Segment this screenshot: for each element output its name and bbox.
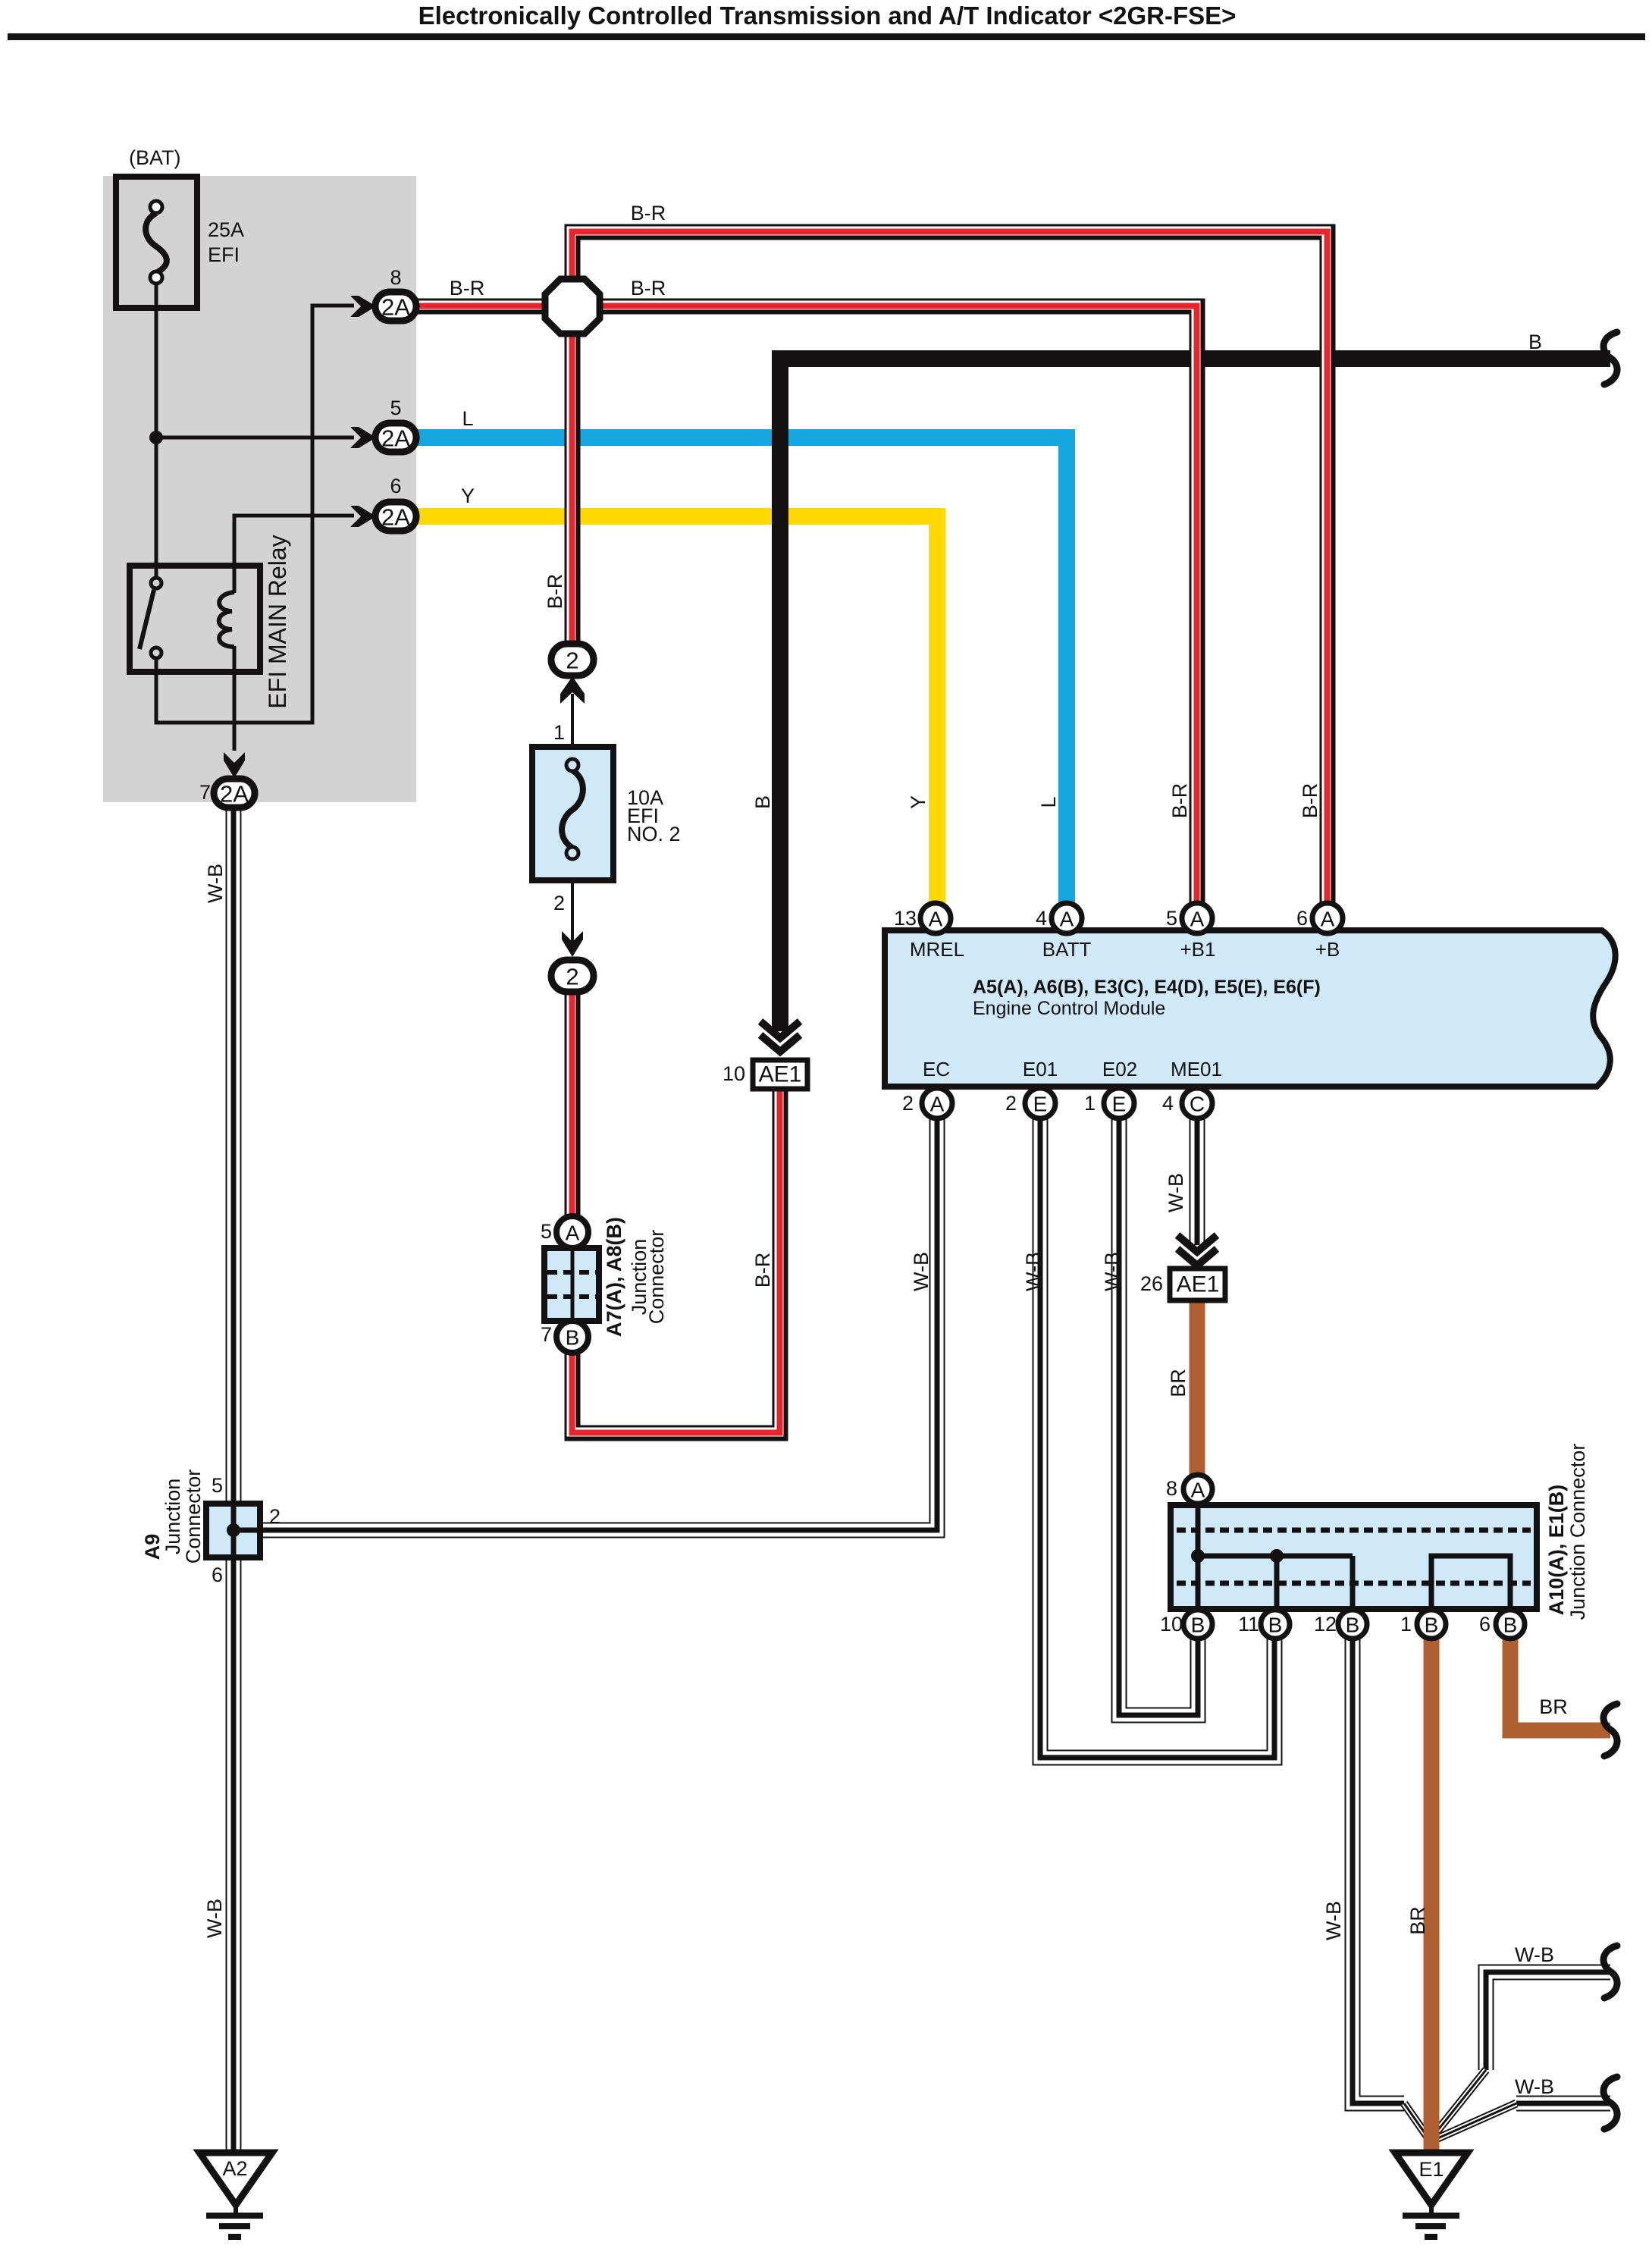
svg-text:B-R: B-R xyxy=(631,202,666,224)
svg-text:5: 5 xyxy=(541,1220,552,1243)
svg-text:B: B xyxy=(566,1326,580,1350)
fuse 25A element xyxy=(146,213,167,273)
svg-text:BR: BR xyxy=(1406,1906,1429,1935)
wire W-B E01 to pin 11 xyxy=(1040,1116,1274,1758)
ECM pin 5 +B1 circle A xyxy=(1182,903,1212,933)
connector oval 2 upper xyxy=(551,644,594,676)
connector oval 2A pin 6 xyxy=(375,502,416,531)
ground E1 triangle xyxy=(1395,2153,1468,2205)
ECM pin 13 MREL circle A xyxy=(920,903,951,933)
junction connector A7 A8 circle A pin 5 xyxy=(556,1216,588,1248)
ground A2 triangle xyxy=(199,2153,272,2205)
svg-text:7: 7 xyxy=(199,781,211,804)
svg-text:B: B xyxy=(1528,331,1542,353)
svg-text:B: B xyxy=(751,795,774,809)
svg-text:2: 2 xyxy=(902,1092,914,1115)
svg-text:2: 2 xyxy=(553,892,565,914)
svg-text:2A: 2A xyxy=(381,425,410,452)
svg-text:6: 6 xyxy=(212,1564,223,1586)
svg-text:W-B: W-B xyxy=(1515,1943,1554,1966)
svg-text:W-B: W-B xyxy=(204,864,227,903)
svg-text:5: 5 xyxy=(390,397,401,419)
wire B-R row8 to +B1 xyxy=(416,306,1197,907)
svg-text:W-B: W-B xyxy=(910,1252,933,1291)
svg-text:W-B: W-B xyxy=(1165,1173,1187,1212)
A10 pin 1 circle B xyxy=(1417,1610,1446,1639)
svg-text:E: E xyxy=(1112,1093,1127,1116)
junction connector A9 box xyxy=(206,1504,260,1557)
svg-text:Connector: Connector xyxy=(645,1230,668,1325)
svg-text:E01: E01 xyxy=(1023,1058,1058,1081)
svg-text:W-B: W-B xyxy=(1322,1901,1345,1940)
svg-text:4: 4 xyxy=(1036,907,1047,930)
A10 pin 12 circle B xyxy=(1338,1610,1367,1639)
svg-text:1: 1 xyxy=(1084,1092,1096,1115)
svg-text:AE1: AE1 xyxy=(759,1062,802,1087)
svg-text:B-R: B-R xyxy=(450,277,485,300)
wire fuse 25A to relay switch xyxy=(155,283,158,580)
svg-text:A5(A), A6(B), E3(C), E4(D), E5: A5(A), A6(B), E3(C), E4(D), E5(E), E6(F) xyxy=(973,977,1321,998)
arrow down into oval 2b xyxy=(562,931,583,957)
wire relay switch out to arrow 8 xyxy=(156,306,354,723)
svg-text:ME01: ME01 xyxy=(1171,1058,1222,1081)
wire W-B pin 12 to ground E1 xyxy=(1353,1638,1404,2103)
svg-text:10: 10 xyxy=(1160,1613,1183,1636)
connector oval 2A pin 7 xyxy=(214,779,255,808)
wire relay coil to arrow 7 xyxy=(233,646,237,751)
svg-text:B: B xyxy=(1191,1614,1205,1637)
svg-text:B-R: B-R xyxy=(1299,783,1321,819)
wire B-R octagon top loop to +B xyxy=(572,232,1328,907)
chevron arrows into AE1 10 xyxy=(760,1021,800,1038)
svg-text:Y: Y xyxy=(461,485,475,507)
svg-text:A: A xyxy=(1191,1479,1205,1502)
svg-text:5: 5 xyxy=(1166,907,1177,930)
svg-text:AE1: AE1 xyxy=(1177,1272,1220,1297)
wire W-B tall left to ground A2 xyxy=(226,805,242,2155)
svg-text:EC: EC xyxy=(923,1058,950,1081)
ECM pin 2 E01 circle E xyxy=(1025,1088,1055,1118)
wire B-R loop AE1 to junction connector xyxy=(572,991,780,1433)
chevron arrows into AE1 26 xyxy=(1177,1235,1217,1252)
connector oval 2A pin 5 xyxy=(375,423,416,452)
junction connector A10 E1 box xyxy=(1171,1505,1537,1609)
svg-text:A: A xyxy=(1060,908,1074,931)
wire L blue BATT feed xyxy=(416,438,1067,907)
arrow up into oval 2 xyxy=(560,676,585,704)
svg-text:7: 7 xyxy=(541,1323,552,1346)
svg-text:C: C xyxy=(1190,1093,1205,1116)
arrow into 2A pin 7 xyxy=(224,752,245,778)
ECM pin 2 EC circle A xyxy=(922,1088,952,1118)
grey background box xyxy=(103,176,416,802)
svg-text:B: B xyxy=(1346,1614,1360,1637)
title rule xyxy=(8,33,1645,40)
svg-text:BR: BR xyxy=(1167,1369,1190,1397)
svg-text:EFI MAIN Relay: EFI MAIN Relay xyxy=(264,535,291,708)
wire BR ME01 AE1 to pin 8 xyxy=(1190,1298,1205,1479)
break symbol wire B xyxy=(1603,332,1617,384)
ECM pin 1 E02 circle E xyxy=(1104,1088,1134,1118)
svg-text:W-B: W-B xyxy=(1022,1252,1045,1291)
svg-text:A7(A), A8(B): A7(A), A8(B) xyxy=(603,1217,625,1337)
svg-text:B-R: B-R xyxy=(631,277,666,300)
fuse 10A EFI NO.2 box xyxy=(532,747,613,880)
svg-text:A2: A2 xyxy=(222,2157,247,2180)
relay switch blade xyxy=(139,590,154,649)
svg-text:Electronically Controlled Tran: Electronically Controlled Transmission a… xyxy=(418,2,1237,30)
AE1 box 26 xyxy=(1170,1269,1225,1300)
A10 pin 8 circle A xyxy=(1183,1475,1212,1504)
relay coil xyxy=(233,566,237,593)
A10 pin 6 circle B xyxy=(1496,1610,1525,1639)
arrow into 2A row 8 xyxy=(350,296,376,317)
wire W-B EC to A9 xyxy=(261,1116,937,1530)
svg-text:+B: +B xyxy=(1315,938,1340,961)
connector oval 2A pin 8 xyxy=(375,292,416,321)
break symbol wire BR xyxy=(1603,1704,1617,1756)
svg-text:B-R: B-R xyxy=(544,574,566,610)
svg-text:EFI: EFI xyxy=(208,243,240,266)
svg-text:6: 6 xyxy=(1479,1613,1491,1636)
svg-text:A: A xyxy=(930,1093,945,1116)
svg-text:1: 1 xyxy=(553,721,565,744)
svg-text:B-R: B-R xyxy=(1168,783,1191,819)
svg-text:L: L xyxy=(462,407,473,430)
svg-text:4: 4 xyxy=(1162,1092,1174,1115)
wire BR pin 6 to right break xyxy=(1510,1638,1610,1730)
svg-text:A10(A), E1(B): A10(A), E1(B) xyxy=(1545,1485,1568,1616)
wire BR pin 1 to ground E1 xyxy=(1424,1638,1440,2155)
arrow into 2A row 6 xyxy=(350,506,376,527)
svg-text:10: 10 xyxy=(723,1062,745,1085)
fuse 25A EFI box xyxy=(116,177,197,308)
arrow into 2A row 5 xyxy=(350,427,376,448)
svg-text:2: 2 xyxy=(269,1505,281,1528)
node junction dot xyxy=(149,431,163,444)
ECM pin 4 BATT circle A xyxy=(1052,903,1082,933)
connector oval 2 lower xyxy=(551,960,594,992)
svg-text:8: 8 xyxy=(1166,1477,1177,1500)
wire B thick black to AE1 xyxy=(780,359,1610,1031)
svg-text:MREL: MREL xyxy=(910,938,964,961)
svg-text:NO. 2: NO. 2 xyxy=(627,823,681,845)
svg-text:A9: A9 xyxy=(141,1534,164,1560)
svg-text:1: 1 xyxy=(1400,1613,1412,1636)
svg-text:E: E xyxy=(1033,1093,1048,1116)
svg-text:B-R: B-R xyxy=(751,1253,774,1288)
svg-text:E1: E1 xyxy=(1418,2158,1444,2181)
wire node to arrow 5 xyxy=(156,436,354,440)
svg-text:Junction Connector: Junction Connector xyxy=(1566,1444,1589,1620)
svg-text:26: 26 xyxy=(1140,1272,1163,1295)
break symbol wire W-B upper xyxy=(1603,1946,1617,1998)
svg-text:Junction: Junction xyxy=(161,1479,184,1555)
wire W-B E02 to pin 10 xyxy=(1119,1116,1198,1715)
svg-text:A: A xyxy=(929,908,943,931)
svg-text:E02: E02 xyxy=(1102,1058,1137,1081)
ECM pin 4 ME01 circle C xyxy=(1182,1088,1212,1118)
junction connector A7 A8 box xyxy=(544,1248,599,1321)
A10 pin 11 circle B xyxy=(1261,1610,1290,1639)
break symbol wire W-B lower xyxy=(1603,2077,1617,2129)
svg-text:W-B: W-B xyxy=(1101,1252,1124,1291)
svg-text:2A: 2A xyxy=(220,781,249,808)
svg-text:25A: 25A xyxy=(208,218,244,241)
svg-text:L: L xyxy=(1037,796,1060,808)
svg-text:W-B: W-B xyxy=(1515,2075,1554,2098)
svg-text:(BAT): (BAT) xyxy=(129,146,181,169)
svg-text:W-B: W-B xyxy=(203,1899,226,1938)
svg-text:2A: 2A xyxy=(381,504,410,531)
svg-text:Engine Control Module: Engine Control Module xyxy=(973,998,1165,1019)
svg-text:6: 6 xyxy=(1296,907,1308,930)
A10 pin 10 circle B xyxy=(1183,1610,1212,1639)
svg-text:A: A xyxy=(1321,908,1335,931)
svg-text:A: A xyxy=(566,1222,580,1245)
svg-text:5: 5 xyxy=(212,1474,223,1497)
svg-text:2A: 2A xyxy=(381,294,410,321)
octagon junction xyxy=(545,279,600,334)
wire W-B upper right to ground E1 xyxy=(1486,1972,1610,2070)
svg-text:8: 8 xyxy=(390,266,401,289)
svg-text:Connector: Connector xyxy=(182,1469,205,1564)
svg-text:B: B xyxy=(1503,1614,1518,1637)
svg-text:2: 2 xyxy=(1005,1092,1017,1115)
fuse 10A element xyxy=(562,770,583,848)
svg-text:B: B xyxy=(1425,1614,1439,1637)
ECM pin 6 +B circle A xyxy=(1312,903,1343,933)
wire Y yellow MREL feed xyxy=(416,516,937,907)
svg-text:A: A xyxy=(1190,908,1205,931)
svg-text:2: 2 xyxy=(566,648,578,674)
svg-text:12: 12 xyxy=(1314,1613,1337,1636)
svg-text:Y: Y xyxy=(907,795,929,809)
svg-text:13: 13 xyxy=(894,907,917,930)
svg-text:+B1: +B1 xyxy=(1180,938,1216,961)
relay EFI MAIN Relay box xyxy=(130,566,260,672)
svg-text:BR: BR xyxy=(1539,1695,1568,1718)
wire relay coil to arrow 6 xyxy=(234,516,354,567)
svg-text:6: 6 xyxy=(390,475,401,497)
wire W-B ME01 to AE1 xyxy=(1190,1116,1205,1245)
AE1 box 10 xyxy=(753,1060,807,1089)
junction connector A7 A8 circle B pin 7 xyxy=(556,1321,588,1353)
wire thin oval2 to fuse EFI NO.2 xyxy=(571,694,574,944)
svg-text:B: B xyxy=(1268,1614,1283,1637)
ECM Engine Control Module box xyxy=(885,930,1616,1087)
wire W-B lower right to ground E1 xyxy=(1516,2096,1610,2112)
svg-text:2: 2 xyxy=(566,964,578,990)
svg-text:11: 11 xyxy=(1238,1613,1259,1636)
relay switch contacts xyxy=(151,578,161,588)
svg-text:BATT: BATT xyxy=(1042,938,1092,961)
